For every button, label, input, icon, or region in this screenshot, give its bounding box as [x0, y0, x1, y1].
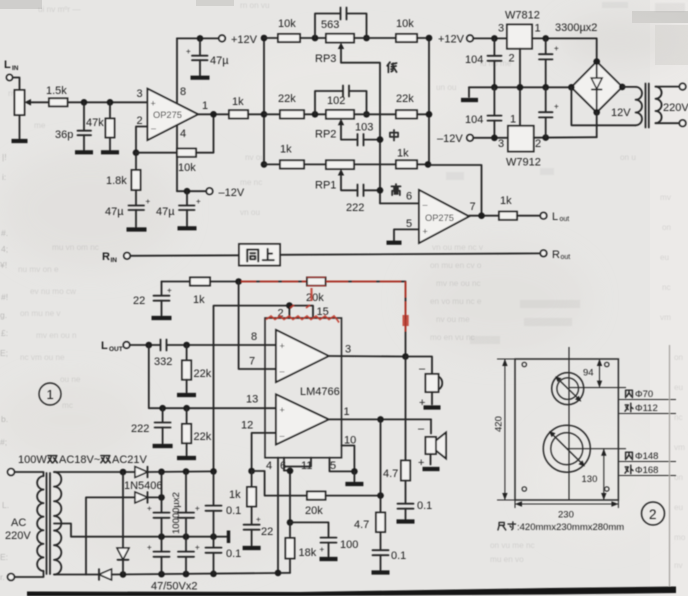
svg-text:–12V: –12V: [219, 187, 245, 199]
svg-text:10k: 10k: [278, 18, 296, 30]
svg-text:|!: |!: [2, 152, 7, 162]
svg-text:mo: mo: [674, 533, 686, 542]
capacitor 104 top: [465, 38, 502, 87]
svg-text:563: 563: [321, 19, 339, 31]
node: [491, 135, 498, 142]
transformer T2 220V winding: [656, 87, 688, 124]
label 47/50Vx2: [151, 581, 197, 593]
svg-text:nv ou: nv ou: [245, 153, 265, 162]
svg-text:RP3: RP3: [315, 53, 336, 65]
node: [351, 468, 358, 475]
right margin rule: [669, 345, 671, 588]
svg-text:–: –: [151, 123, 156, 133]
svg-text:mv ne ou nc: mv ne ou nc: [436, 279, 481, 288]
transformer T1 secondary: [54, 472, 61, 575]
capacitor 36p: [55, 102, 91, 150]
node: [158, 469, 165, 476]
svg-text:1: 1: [202, 100, 208, 112]
ground: [75, 150, 93, 154]
dimension 130: [567, 449, 626, 500]
node fb: [235, 278, 242, 285]
svg-text:220V: 220V: [5, 530, 31, 542]
node: [402, 353, 409, 360]
svg-text:L: L: [552, 211, 558, 223]
ground: [423, 467, 440, 471]
svg-text:vm: vm: [674, 443, 685, 452]
resistor 1k fb top: [162, 277, 308, 306]
node: [517, 84, 524, 91]
capacitor C2 47u: [186, 38, 229, 75]
node: [377, 187, 384, 194]
label circled 2: [642, 502, 665, 525]
ground: [320, 557, 338, 561]
label circled 1: [39, 383, 61, 405]
svg-text:on mu en cv o: on mu en cv o: [430, 261, 482, 270]
svg-text:0.1: 0.1: [417, 500, 432, 512]
svg-text:15: 15: [317, 306, 329, 318]
node A1: [312, 35, 319, 42]
svg-text:on: on: [674, 473, 684, 482]
node: [377, 416, 384, 423]
zobel R 4.7 top: [383, 357, 410, 504]
svg-text:12V: 12V: [611, 107, 631, 119]
resistor 20k fb top (red marked): [306, 277, 406, 356]
svg-text:nv: nv: [674, 561, 684, 570]
mount hole bottom-right: [605, 487, 609, 491]
zobel R 4.7 bottom: [354, 419, 385, 549]
ground: [178, 226, 197, 230]
svg-text:–: –: [280, 431, 285, 441]
node: [146, 342, 153, 349]
svg-text:Φ168: Φ168: [635, 465, 658, 476]
svg-text:22k: 22k: [194, 368, 212, 380]
capacitor 104 bottom: [465, 87, 502, 137]
wire ground rail: [469, 86, 571, 88]
svg-text:1: 1: [47, 387, 54, 402]
node feedback: [133, 149, 140, 156]
pin 2 label: [137, 115, 143, 127]
svg-text:100: 100: [340, 539, 358, 551]
regulator W7812: [498, 10, 541, 65]
svg-text:W7812: W7812: [505, 10, 540, 22]
pin 4 wire: [266, 458, 278, 573]
svg-text:AC21V: AC21V: [112, 454, 148, 466]
mount hole bottom-left: [522, 487, 526, 491]
svg-text:1k: 1k: [397, 148, 409, 160]
node: [183, 342, 190, 349]
svg-text:+: +: [554, 102, 559, 111]
box tongshang (same as above): [239, 244, 280, 266]
glyph tong: [247, 250, 258, 262]
svg-text:#;: #;: [0, 437, 7, 447]
node bridge left: [568, 84, 575, 91]
capacitor 3300u bottom: [539, 87, 559, 137]
svg-text:100W: 100W: [18, 454, 47, 466]
node Lin label: [4, 59, 19, 72]
pin 3 output wire: [329, 344, 406, 357]
pin 3 label: [137, 88, 143, 100]
node: [377, 492, 384, 499]
svg-text:12: 12: [241, 420, 253, 432]
svg-text:1k: 1k: [193, 294, 205, 306]
label 10000ux2: [171, 492, 182, 534]
terminal Lout: [540, 211, 569, 223]
center line: [568, 347, 570, 500]
node: [542, 35, 549, 42]
node bridge bottom: [593, 109, 600, 116]
resistor 1k output: [499, 195, 540, 220]
label 3300ux2: [555, 22, 597, 34]
wire: [280, 253, 540, 254]
svg-text:1: 1: [535, 23, 541, 35]
capacitor 103 wiper RP2: [341, 122, 380, 146]
svg-text:vm: vm: [660, 313, 671, 322]
wire: [130, 254, 239, 257]
svg-text:10k: 10k: [178, 162, 196, 174]
svg-text:20k: 20k: [305, 505, 323, 517]
node bridge right: [619, 84, 626, 91]
capacitor 102 bypass: [315, 86, 367, 115]
svg-text:230: 230: [558, 510, 574, 521]
svg-text:3: 3: [498, 23, 504, 35]
wire RP3 wiper: [341, 48, 380, 203]
svg-text:en vo mu nc e: en vo mu nc e: [430, 297, 482, 306]
svg-text:+: +: [146, 197, 151, 206]
svg-text::420mmx230mmx280mm: :420mmx230mmx280mm: [517, 522, 624, 533]
svg-text:vn ou: vn ou: [240, 208, 260, 217]
svg-text:0.1: 0.1: [391, 550, 406, 562]
wire: [473, 137, 508, 139]
svg-text:E:: E:: [0, 552, 8, 562]
node: [81, 99, 88, 106]
svg-text:8: 8: [180, 86, 186, 98]
terminal -12V supply: [437, 133, 473, 145]
terminal +12V supply: [438, 34, 473, 46]
ground: [191, 76, 210, 80]
label outer dia 168: [618, 465, 676, 476]
wire pin2: [136, 127, 148, 153]
svg-text:47k: 47k: [86, 117, 104, 129]
svg-text:94: 94: [583, 368, 594, 379]
resistor 22k input bottom: [182, 408, 212, 455]
wire +12V rail: [177, 37, 219, 39]
capacitor C1 47u: [105, 197, 151, 227]
svg-text:1k: 1k: [232, 96, 244, 108]
node: [183, 468, 190, 475]
transformer T1 primary: [5, 472, 44, 577]
svg-text:+: +: [186, 47, 191, 56]
wire pin6: [380, 191, 419, 204]
svg-text:on u: on u: [620, 153, 636, 162]
mount hole top-right: [605, 362, 609, 366]
capacitor 0.1 psu top: [206, 471, 242, 536]
IC LM4766 box: [265, 318, 342, 458]
node: [120, 469, 127, 476]
ground-rail end bar: [227, 531, 230, 544]
svg-text:b.: b.: [1, 414, 8, 424]
svg-text:ui nv mºr —: ui nv mºr —: [38, 5, 81, 14]
svg-text:Φ70: Φ70: [635, 389, 653, 400]
op-amp U1B: [419, 190, 469, 243]
capacitor 22u fb: [133, 282, 172, 316]
svg-text:1N5406: 1N5406: [124, 480, 163, 492]
svg-text:mc: mc: [62, 401, 73, 410]
terminal +12V: [219, 34, 258, 46]
node pin12: [248, 468, 255, 475]
svg-text:47µ: 47µ: [210, 55, 229, 67]
svg-text:4.7: 4.7: [354, 519, 369, 531]
resistor 22k row2 right: [354, 93, 429, 118]
ground: [177, 456, 196, 460]
resistor 1k row3 right: [354, 148, 429, 169]
capacitor 563 bypass: [315, 8, 367, 39]
bridge rectifier: [571, 62, 622, 113]
resistor 22k input top: [182, 345, 212, 393]
label outer dia 112: [618, 403, 676, 414]
svg-text:eu: eu: [674, 383, 684, 392]
faint bleed-through texture (decorative, behind schematic): [0, 152, 9, 582]
node: [287, 519, 294, 526]
resistor 10k feedback: [136, 114, 214, 174]
svg-text:AC: AC: [11, 517, 26, 529]
svg-text:out: out: [561, 254, 571, 261]
svg-text:8: 8: [251, 331, 257, 343]
node: [210, 111, 217, 118]
resistor 1k fb bottom: [229, 471, 256, 524]
node B1: [363, 35, 370, 42]
potentiometer RP2: [315, 110, 354, 141]
svg-text:on: on: [662, 223, 672, 232]
svg-text:–12V: –12V: [437, 133, 463, 145]
pin1 label W7912: [510, 114, 516, 126]
svg-text:22k: 22k: [396, 93, 414, 105]
resistor 20k fb bottom: [252, 471, 381, 517]
node A2: [312, 111, 319, 118]
svg-text:10000µx2: 10000µx2: [171, 492, 182, 534]
svg-text:+: +: [167, 286, 172, 295]
svg-text:i:: i:: [2, 172, 6, 182]
svg-text:eu: eu: [660, 253, 670, 262]
resistor 10k row1 right: [354, 18, 429, 42]
svg-text:RP2: RP2: [315, 129, 336, 141]
node: [210, 533, 217, 540]
ground: [177, 393, 196, 397]
svg-text:18k: 18k: [299, 547, 317, 559]
dimension 420: [494, 359, 516, 500]
wire: [532, 38, 597, 59]
resistor 1.5k: [33, 85, 68, 106]
svg-text:E;: E;: [0, 348, 8, 358]
node: [210, 571, 217, 578]
wire bridge to -12V: [596, 112, 598, 137]
ground: [152, 316, 172, 320]
svg-text:222: 222: [131, 423, 149, 435]
resistor 47k: [86, 102, 115, 150]
wire: [13, 78, 20, 91]
diode D1 1N5406: [54, 467, 214, 492]
svg-text:#!: #!: [1, 292, 8, 302]
wire pin5: [394, 218, 419, 241]
svg-text:+: +: [423, 227, 428, 237]
ground: [127, 227, 147, 231]
wire pin12: [241, 420, 276, 472]
ground: [101, 150, 119, 154]
wire pin8: [177, 38, 186, 103]
terminal Lin: [7, 75, 13, 81]
svg-text:+12V: +12V: [231, 34, 258, 46]
svg-text:2: 2: [509, 53, 515, 65]
svg-text:+: +: [151, 99, 156, 109]
svg-text:ou ne: ou ne: [60, 375, 81, 384]
woofer hole: [543, 425, 590, 472]
terminal 220V bottom: [679, 120, 685, 126]
svg-text:RP1: RP1: [315, 180, 336, 192]
wire: [473, 37, 507, 39]
ground: [12, 139, 28, 143]
node: [183, 533, 190, 540]
svg-text:OP275: OP275: [153, 110, 182, 120]
node bridge top: [593, 58, 600, 65]
svg-text:7: 7: [249, 356, 255, 368]
svg-text:6: 6: [406, 191, 412, 203]
wire: [130, 344, 160, 346]
capacitor 3300u top: [539, 38, 559, 87]
resistor 1k row3 left: [264, 144, 326, 169]
wire center tap ground rail: [54, 524, 228, 537]
potentiometer VR1: [15, 90, 34, 115]
diode D2 1N5406: [86, 492, 162, 575]
op-amp U1A OP275: [148, 89, 199, 140]
transformer T2 core: [646, 84, 649, 128]
pin 1 output: [198, 100, 229, 114]
pin 6 and 11 wires: [280, 458, 312, 523]
node: [542, 84, 549, 91]
svg-text:+: +: [195, 504, 200, 513]
svg-text:3300µx2: 3300µx2: [555, 22, 597, 34]
node: [184, 188, 191, 195]
zobel C 0.1 top: [398, 500, 433, 519]
svg-text:22k: 22k: [194, 431, 212, 443]
svg-text:r.: r.: [0, 572, 5, 582]
label dimensions text: [498, 522, 624, 533]
svg-text:Φ148: Φ148: [635, 451, 658, 462]
ground: [372, 570, 390, 574]
svg-text:on mu ne v: on mu ne v: [20, 309, 61, 318]
node: [158, 533, 165, 540]
zobel C 0.1 bottom: [373, 550, 407, 570]
svg-text:420: 420: [494, 416, 505, 432]
wire -12V: [177, 190, 206, 192]
wire: [19, 115, 21, 139]
svg-text:13: 13: [246, 394, 258, 406]
node: [120, 571, 127, 578]
scan bottom black band: [27, 587, 676, 596]
svg-text:#.: #.: [1, 228, 8, 238]
svg-text:1k: 1k: [229, 489, 241, 501]
svg-text:5: 5: [406, 218, 412, 230]
svg-text:5: 5: [330, 460, 336, 472]
ground: [153, 444, 173, 448]
svg-text:ev nu mo cw: ev nu mo cw: [30, 287, 76, 296]
node: [159, 405, 166, 412]
svg-text:+: +: [320, 545, 325, 554]
dimension 94: [569, 359, 626, 388]
diode D3: [54, 569, 290, 580]
node: [158, 494, 165, 501]
node: [183, 571, 190, 578]
svg-text:36p: 36p: [55, 129, 73, 141]
wire bus to output: [429, 165, 482, 216]
node: [107, 99, 114, 106]
ground pin5: [345, 471, 363, 484]
baffle panel outline: [515, 359, 618, 500]
svg-text:220V: 220V: [663, 102, 688, 114]
svg-text:47/50Vx2: 47/50Vx2: [151, 581, 197, 593]
red zigzag on IC top edge: [266, 305, 339, 323]
svg-text:102: 102: [327, 95, 345, 107]
svg-text:22k: 22k: [278, 93, 296, 105]
svg-text:nu mv on e: nu mv on e: [18, 265, 59, 274]
wire right bus: [425, 35, 433, 168]
node: [478, 212, 485, 219]
svg-text:1: 1: [510, 114, 516, 126]
terminal Rin: [124, 253, 130, 259]
wire pin4: [177, 125, 186, 191]
svg-text:AC18V~: AC18V~: [59, 454, 100, 466]
svg-text:L: L: [4, 59, 11, 71]
pin 10 wire: [342, 435, 357, 472]
svg-text:+: +: [147, 504, 152, 513]
svg-text:20k: 20k: [306, 292, 324, 304]
label 100W dual AC: [18, 454, 148, 466]
glyph shang: [263, 249, 274, 260]
wire: [68, 101, 148, 103]
resistor 22k row2 left: [264, 93, 326, 118]
capacitor 222 input: [131, 408, 171, 443]
capacitor 100u: [290, 522, 358, 556]
terminal AC primary top: [8, 469, 15, 476]
svg-text:0.1: 0.1: [226, 505, 241, 517]
label inner dia 148: [618, 451, 676, 462]
svg-text:2: 2: [649, 507, 657, 522]
svg-text:£:: £:: [1, 328, 8, 338]
ground: [243, 546, 261, 550]
svg-text:L: L: [101, 340, 108, 352]
node: [542, 134, 549, 141]
resistor 1.8k: [106, 153, 141, 205]
wire left bus: [261, 35, 268, 168]
node B2: [363, 111, 370, 118]
svg-text:2: 2: [535, 138, 541, 150]
terminal Rout: [540, 249, 570, 261]
resistor 18k: [285, 522, 316, 573]
svg-text:me nc: me nc: [240, 178, 262, 187]
transformer T2 12V winding: [571, 87, 642, 125]
svg-text:OP275: OP275: [425, 213, 454, 223]
svg-text:on: on: [674, 353, 684, 362]
svg-text:mv en ou n: mv en ou n: [36, 331, 77, 340]
capacitor 0.1 psu bottom: [206, 537, 242, 574]
svg-text:LM4766: LM4766: [300, 386, 340, 398]
svg-text:mo en vu nc: mo en vu nc: [430, 333, 475, 342]
terminal Lout input: [101, 340, 130, 353]
svg-text:+: +: [196, 197, 201, 206]
svg-text:OUT: OUT: [109, 346, 123, 353]
svg-text:1: 1: [344, 406, 350, 418]
wire pin7: [239, 282, 276, 370]
node: [158, 571, 165, 578]
svg-text:+: +: [147, 543, 152, 552]
